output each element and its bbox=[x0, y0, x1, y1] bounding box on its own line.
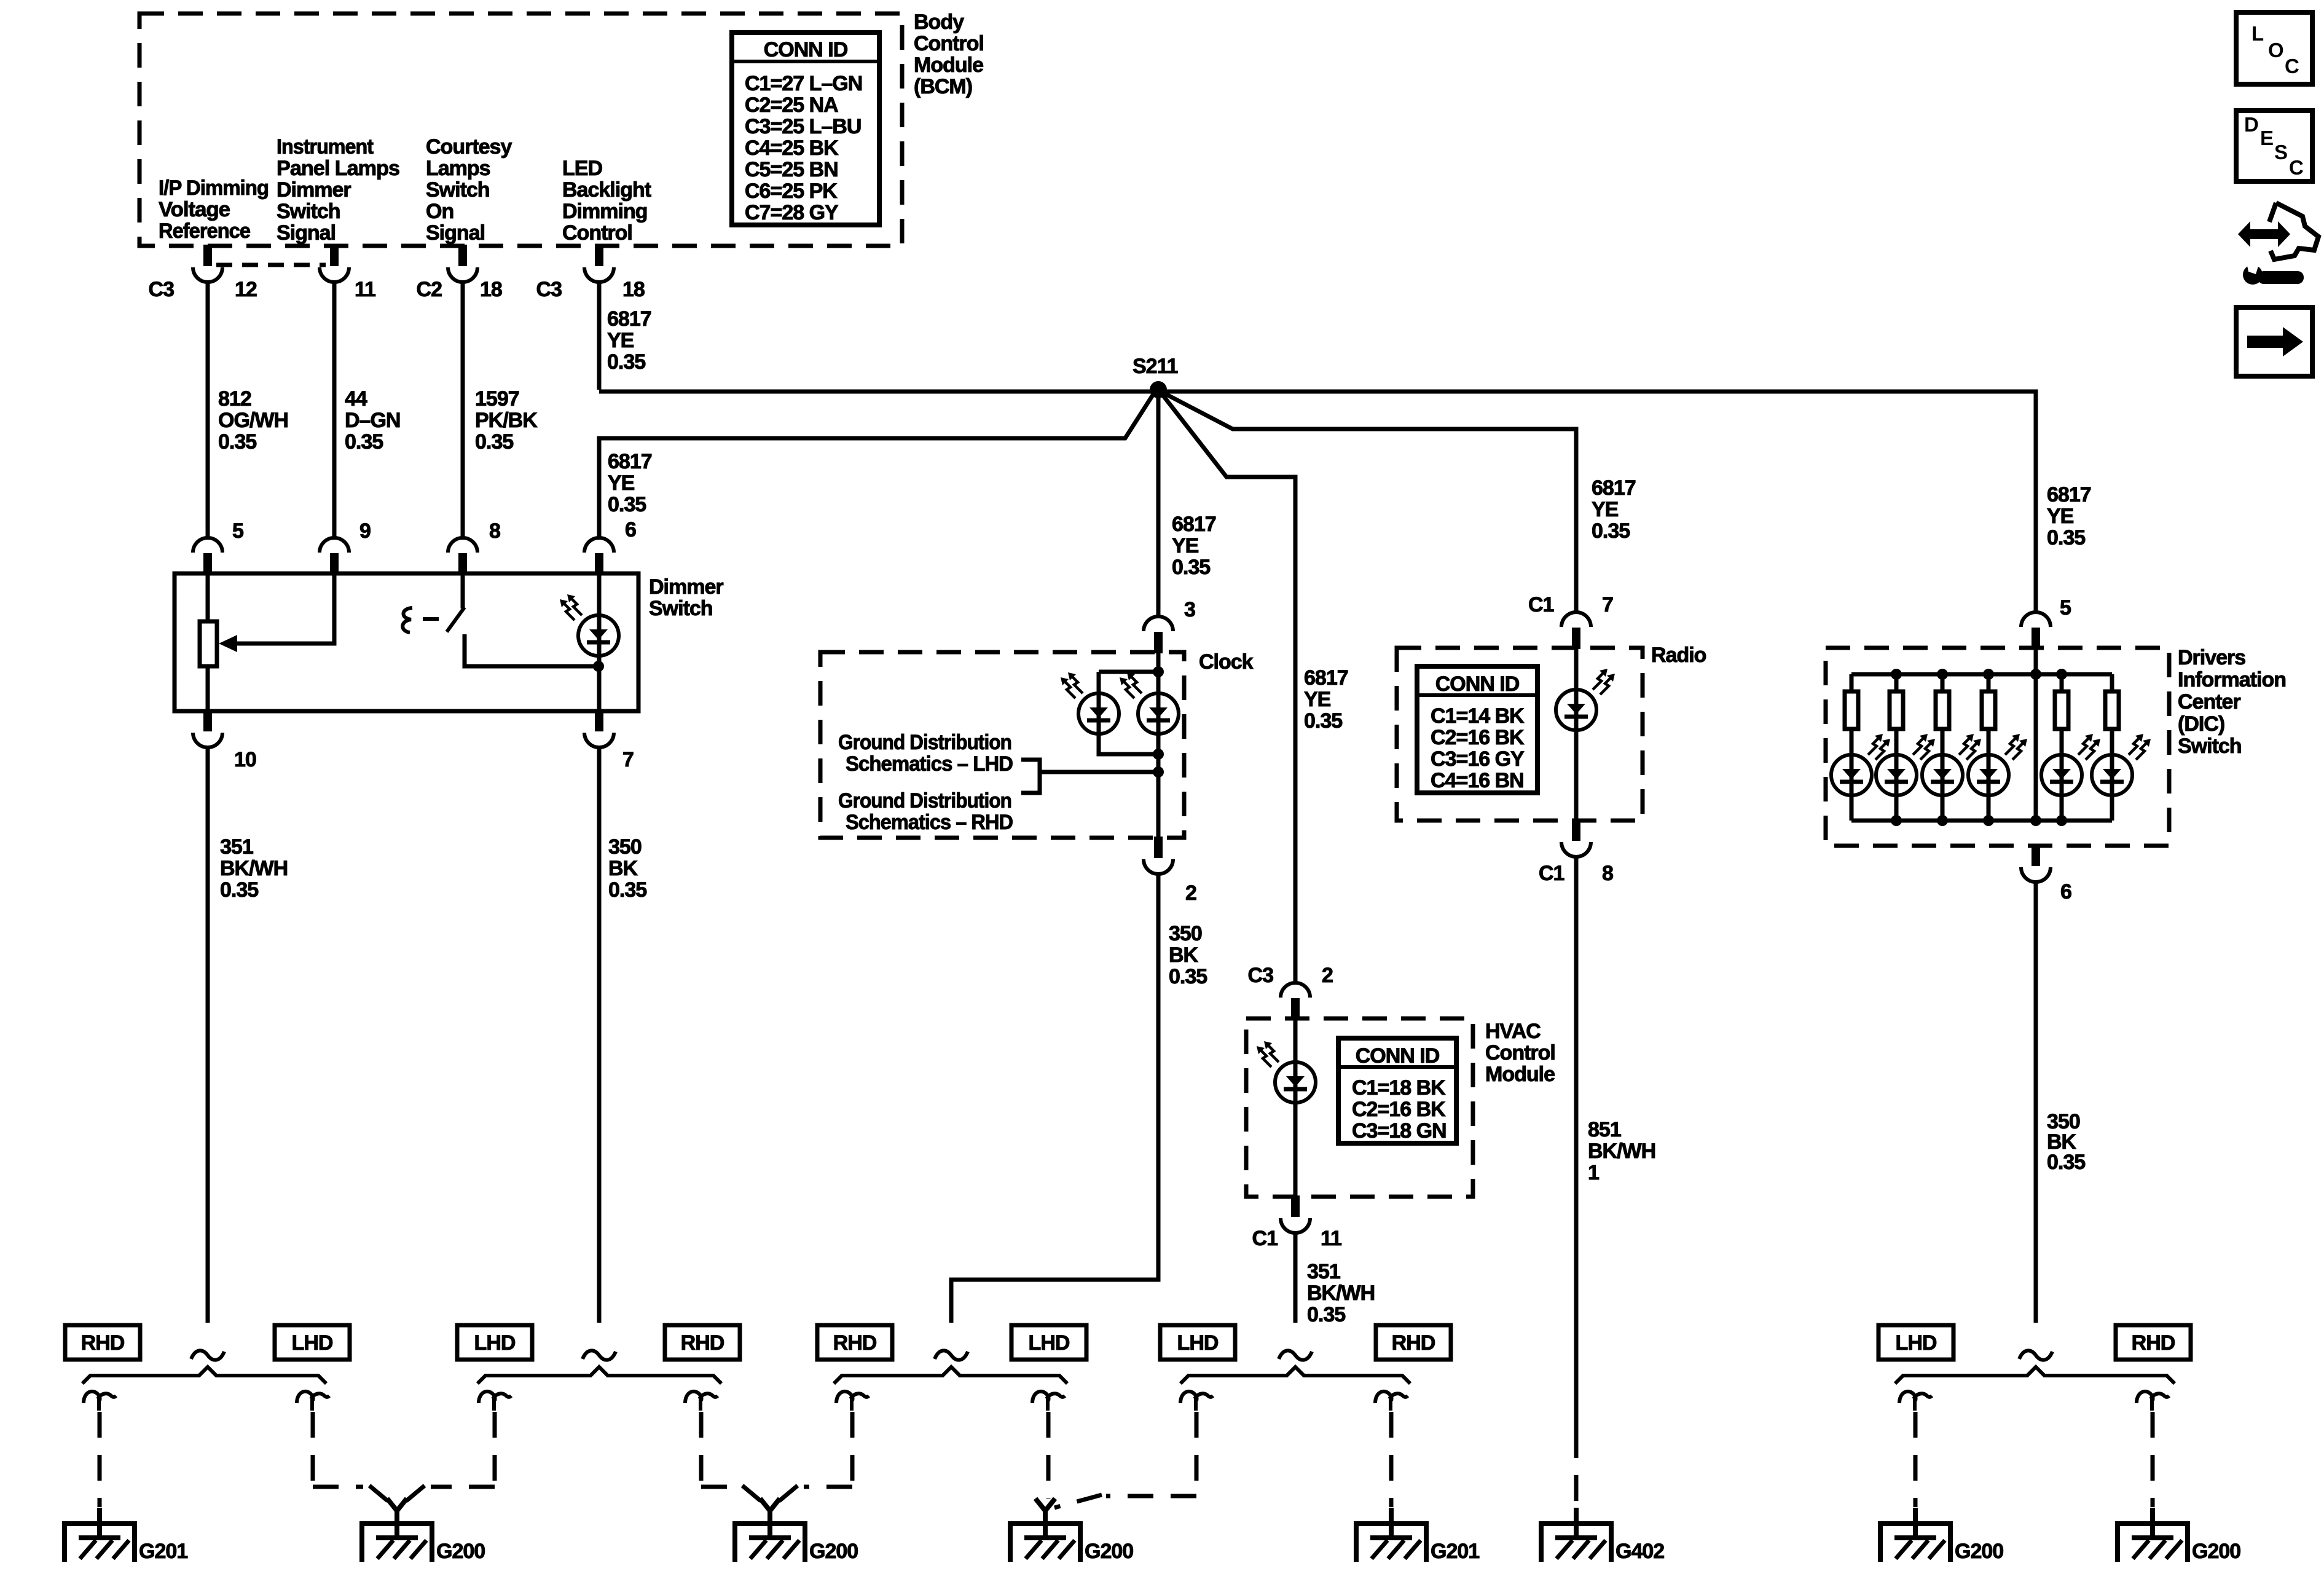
ground label G200 bbox=[436, 1540, 485, 1563]
svg-text:6817: 6817 bbox=[1172, 513, 1216, 536]
svg-text:Dimmer: Dimmer bbox=[649, 575, 723, 599]
pin label 5 bbox=[2060, 596, 2071, 620]
svg-text:C4=25 BK: C4=25 BK bbox=[745, 136, 839, 160]
wire pin 6 through LED bbox=[597, 573, 602, 711]
DIC branch 4 wire bbox=[1987, 674, 1991, 821]
wire 351 BK/WH from dimmer pin 10 bbox=[206, 747, 210, 1323]
inline connector clip bbox=[1032, 1392, 1065, 1411]
wire label 350 BK 0.35 bbox=[1169, 922, 1207, 988]
svg-text:C2=16 BK: C2=16 BK bbox=[1431, 726, 1525, 749]
wire label 6817 YE 0.35 at DIC bbox=[2047, 483, 2091, 549]
ground Y split bbox=[1035, 1498, 1055, 1524]
svg-text:C1: C1 bbox=[1539, 862, 1564, 885]
resistor R3 (DIC) bbox=[1936, 691, 1949, 729]
svg-text:Signal: Signal bbox=[426, 221, 485, 245]
resistor R1 (DIC) bbox=[1845, 691, 1858, 729]
variant box LHD bbox=[1878, 1325, 1953, 1360]
svg-text:9: 9 bbox=[359, 519, 371, 543]
svg-text:0.35: 0.35 bbox=[475, 430, 513, 454]
ground G201 bbox=[1356, 1508, 1426, 1562]
DIC branch 5 wire bbox=[2060, 674, 2064, 821]
svg-text:RHD: RHD bbox=[81, 1331, 125, 1355]
svg-text:RHD: RHD bbox=[1392, 1331, 1435, 1355]
svg-text:On: On bbox=[426, 200, 453, 223]
wire 812 OG/WH from BCM pin 12 to dimmer pin 5 bbox=[206, 282, 210, 539]
pin label C1 bbox=[1539, 862, 1564, 885]
pin label 8 bbox=[1602, 862, 1613, 885]
dimmer connector pin 9 bbox=[320, 538, 349, 575]
pin label 12 bbox=[235, 278, 257, 301]
svg-text:C1: C1 bbox=[1528, 593, 1554, 616]
svg-text:11: 11 bbox=[355, 278, 375, 301]
svg-text:O: O bbox=[2268, 39, 2283, 61]
wire HVAC internal bbox=[1294, 1018, 1298, 1197]
variant box RHD bbox=[665, 1325, 740, 1360]
pin label 7 bbox=[622, 748, 634, 771]
svg-text:G201: G201 bbox=[139, 1540, 187, 1563]
svg-text:Body: Body bbox=[914, 10, 964, 34]
svg-text:Control: Control bbox=[562, 221, 632, 245]
wire break tilde symbol bbox=[191, 1350, 224, 1360]
svg-text:0.35: 0.35 bbox=[1304, 709, 1342, 733]
wire label 6817 YE 0.35 bbox=[1592, 476, 1636, 543]
svg-text:OG/WH: OG/WH bbox=[218, 409, 288, 432]
wire pot wiper from pin 9 bbox=[236, 573, 334, 644]
dashed wire RHD to G201 bbox=[98, 1412, 102, 1507]
junction dot DIC top bus bbox=[1983, 669, 1994, 680]
svg-text:C1=18 BK: C1=18 BK bbox=[1352, 1076, 1446, 1100]
junction dot DIC top bus bbox=[1937, 669, 1948, 680]
variant box RHD bbox=[817, 1325, 892, 1360]
svg-text:Switch: Switch bbox=[649, 597, 713, 620]
pin label C3 bbox=[149, 278, 175, 301]
switch S1 blade bbox=[447, 607, 465, 632]
svg-text:7: 7 bbox=[1602, 593, 1613, 616]
icon DESC box bbox=[2236, 111, 2312, 181]
svg-text:RHD: RHD bbox=[2132, 1331, 2175, 1355]
icon forward arrow box bbox=[2236, 307, 2312, 376]
svg-text:C2=16 BK: C2=16 BK bbox=[1352, 1098, 1446, 1121]
dimmer connector pin 10 bbox=[193, 710, 222, 747]
BCM label Body Control Module (BCM) bbox=[914, 10, 984, 98]
wire label 6817 YE 0.35 bbox=[608, 450, 652, 516]
svg-text:C3: C3 bbox=[149, 278, 175, 301]
component label HVAC Control Module bbox=[1485, 1020, 1555, 1086]
svg-text:HVAC: HVAC bbox=[1485, 1020, 1541, 1043]
svg-text:C3: C3 bbox=[536, 278, 562, 301]
body control module (BCM) dashed box bbox=[139, 14, 902, 246]
ground label G201 bbox=[1431, 1540, 1479, 1563]
dimmer connector pin 8 bbox=[448, 538, 477, 575]
svg-text:Signal: Signal bbox=[277, 221, 336, 245]
svg-text:8: 8 bbox=[489, 519, 500, 543]
svg-text:0.35: 0.35 bbox=[218, 430, 256, 454]
pin label 18 bbox=[480, 278, 502, 301]
svg-text:Panel Lamps: Panel Lamps bbox=[277, 157, 399, 180]
svg-text:10: 10 bbox=[234, 748, 256, 771]
svg-text:L: L bbox=[2251, 22, 2264, 45]
dimmer connector pin 5 bbox=[193, 538, 222, 575]
svg-text:LHD: LHD bbox=[474, 1331, 516, 1355]
LED D3 (clock right) bbox=[1138, 693, 1179, 734]
clock dashed box bbox=[820, 652, 1184, 838]
svg-text:BK: BK bbox=[608, 857, 638, 880]
wire 44 D-GN from BCM pin 11 to dimmer pin 9 bbox=[332, 282, 337, 539]
svg-text:LHD: LHD bbox=[292, 1331, 333, 1355]
pin label 6 bbox=[2060, 880, 2071, 904]
LED D2 (clock left) bbox=[1078, 693, 1119, 734]
LED D11 rays bbox=[2129, 734, 2151, 760]
svg-text:6: 6 bbox=[625, 518, 636, 541]
svg-text:C3=25 L–BU: C3=25 L–BU bbox=[745, 115, 861, 138]
ground G200 bbox=[362, 1508, 432, 1562]
svg-text:0.35: 0.35 bbox=[1169, 965, 1207, 988]
wire label 351 BK/WH 0.35 bbox=[1307, 1260, 1375, 1326]
svg-text:Information: Information bbox=[2178, 668, 2286, 691]
svg-text:350: 350 bbox=[1169, 922, 1202, 945]
wire label 1597 PK/BK 0.35 bbox=[475, 387, 538, 454]
wire label 350 BK 0.35 bbox=[2047, 1110, 2085, 1174]
ground label G200 bbox=[1085, 1540, 1133, 1563]
BCM connector pin C3-18 bbox=[584, 245, 614, 282]
ground Y split bbox=[760, 1498, 780, 1524]
svg-text:YE: YE bbox=[1304, 688, 1331, 711]
pin label 10 bbox=[234, 748, 256, 771]
LED D6 (DIC) bbox=[1831, 755, 1872, 795]
potentiometer R (dimmer rheostat) bbox=[200, 621, 217, 666]
inline connector clip bbox=[1180, 1392, 1213, 1411]
svg-text:0.35: 0.35 bbox=[608, 493, 646, 516]
BCM pin function label LED Backlight Dimming Control bbox=[562, 157, 651, 245]
resistor R4 (DIC) bbox=[1982, 691, 1995, 729]
svg-text:C3: C3 bbox=[1248, 964, 1274, 987]
connector C3 dashed link between pins 12 and 11 bbox=[216, 263, 326, 267]
svg-text:Switch: Switch bbox=[277, 200, 340, 223]
svg-text:C: C bbox=[2285, 55, 2299, 77]
HVAC control module dashed box bbox=[1246, 1018, 1473, 1197]
dashed wire LHD to G200 right feed bbox=[406, 1412, 495, 1501]
inline connector clip bbox=[1899, 1392, 1932, 1411]
pin label C1 bbox=[1528, 593, 1554, 616]
radio connector pin C1-8 bbox=[1561, 819, 1591, 857]
svg-text:Radio: Radio bbox=[1651, 644, 1706, 667]
svg-text:Control: Control bbox=[1485, 1041, 1555, 1065]
ground label G200 bbox=[2192, 1540, 2240, 1563]
svg-text:G200: G200 bbox=[1085, 1540, 1133, 1563]
ground G200 bbox=[735, 1508, 805, 1562]
harness brace bbox=[1895, 1367, 2175, 1384]
svg-text:RHD: RHD bbox=[833, 1331, 877, 1355]
svg-text:1: 1 bbox=[1588, 1161, 1599, 1184]
harness brace bbox=[477, 1367, 721, 1384]
icon LOC box bbox=[2236, 12, 2312, 84]
svg-text:C7=28 GY: C7=28 GY bbox=[745, 201, 839, 224]
ground label G200 bbox=[1955, 1540, 2003, 1563]
wire 351 BK/WH from HVAC pin 11 bbox=[1294, 1233, 1298, 1323]
svg-text:Drivers: Drivers bbox=[2178, 646, 2245, 669]
svg-text:C2: C2 bbox=[417, 278, 442, 301]
svg-text:C5=25 BN: C5=25 BN bbox=[745, 158, 838, 181]
variant box RHD bbox=[1376, 1325, 1451, 1360]
svg-text:Clock: Clock bbox=[1199, 650, 1254, 674]
svg-text:RHD: RHD bbox=[681, 1331, 724, 1355]
ground G402 bbox=[1541, 1508, 1611, 1562]
ground G200 bbox=[1010, 1508, 1080, 1562]
svg-text:C4=16 BN: C4=16 BN bbox=[1431, 769, 1524, 792]
svg-text:S: S bbox=[2274, 141, 2287, 163]
harness brace bbox=[1180, 1367, 1410, 1384]
DIC bottom bus wire bbox=[1851, 819, 2112, 823]
DIC branch 6 wire bbox=[2110, 674, 2114, 821]
inline connector clip bbox=[479, 1392, 511, 1411]
ground G200 bbox=[1880, 1508, 1950, 1562]
drivers information center dashed box bbox=[1826, 648, 2169, 846]
svg-text:CONN ID: CONN ID bbox=[1356, 1044, 1440, 1068]
svg-text:C1=14 BK: C1=14 BK bbox=[1431, 704, 1525, 728]
svg-text:Dimming: Dimming bbox=[562, 200, 647, 223]
DIC connector pin 5 bbox=[2021, 612, 2051, 649]
wire 350 BK from dimmer pin 7 bbox=[597, 747, 602, 1323]
svg-text:Lamps: Lamps bbox=[426, 157, 490, 180]
svg-text:Reference: Reference bbox=[159, 219, 250, 243]
resistor R2 (DIC) bbox=[1890, 691, 1903, 729]
wire label 44 D-GN 0.35 bbox=[345, 387, 400, 454]
svg-text:LHD: LHD bbox=[1896, 1331, 1937, 1355]
pin label 8 bbox=[489, 519, 500, 543]
svg-text:351: 351 bbox=[220, 835, 253, 859]
ground G200 bbox=[2118, 1508, 2188, 1562]
pin label 2 bbox=[1322, 964, 1333, 987]
svg-text:YE: YE bbox=[1172, 534, 1199, 557]
svg-text:Courtesy: Courtesy bbox=[426, 135, 512, 159]
variant box RHD bbox=[65, 1325, 140, 1360]
junction dot clock top bbox=[1153, 666, 1164, 677]
DIC branch 1 wire bbox=[1850, 674, 1854, 821]
dashed wire RHD to G200 right feed bbox=[779, 1412, 852, 1501]
wire radio internal bbox=[1574, 648, 1579, 821]
svg-text:44: 44 bbox=[345, 387, 367, 411]
LED D8 (DIC) bbox=[1922, 755, 1963, 795]
svg-text:350: 350 bbox=[608, 835, 642, 859]
icon wrench and double arrow bbox=[2238, 203, 2318, 285]
component label Dimmer Switch bbox=[649, 575, 723, 620]
ground label G200 bbox=[809, 1540, 858, 1563]
potentiometer wiper arrowhead bbox=[219, 635, 237, 652]
switch actuator symbol bbox=[402, 608, 412, 632]
clock connector pin 2 bbox=[1144, 837, 1173, 874]
pin label 5 bbox=[232, 519, 243, 543]
inline connector clip bbox=[297, 1392, 329, 1411]
variant box LHD bbox=[1011, 1325, 1086, 1360]
svg-text:YE: YE bbox=[608, 471, 635, 495]
svg-text:5: 5 bbox=[2060, 596, 2071, 620]
svg-text:PK/BK: PK/BK bbox=[475, 409, 538, 432]
BCM connector pin 11 bbox=[320, 245, 349, 282]
svg-text:Ground Distribution: Ground Distribution bbox=[838, 789, 1011, 813]
svg-text:0.35: 0.35 bbox=[2047, 526, 2085, 549]
BCM connector pin C3-12 bbox=[193, 245, 222, 282]
LED D10 (DIC) bbox=[2041, 755, 2082, 795]
pin label 11 bbox=[355, 278, 375, 301]
DIC connector pin 6 bbox=[2021, 845, 2051, 882]
svg-text:Dimmer: Dimmer bbox=[277, 178, 351, 202]
pin label 2 bbox=[1185, 881, 1196, 905]
svg-text:0.35: 0.35 bbox=[345, 430, 383, 454]
svg-text:Module: Module bbox=[914, 53, 983, 77]
junction dot DIC top bus bbox=[2030, 669, 2041, 680]
svg-text:S211: S211 bbox=[1133, 355, 1178, 378]
pin label C2 bbox=[417, 278, 442, 301]
svg-text:Switch: Switch bbox=[2178, 734, 2242, 758]
label Ground Distribution Schematics - LHD bbox=[838, 731, 1013, 776]
dashed wire RHD to G201 bbox=[1389, 1412, 1394, 1507]
junction dot DIC bottom bus bbox=[1937, 815, 1948, 826]
svg-text:G200: G200 bbox=[2192, 1540, 2240, 1563]
svg-text:YE: YE bbox=[2047, 505, 2074, 528]
svg-text:YE: YE bbox=[1592, 498, 1619, 521]
dashed wire RHD to G200 bbox=[701, 1412, 761, 1501]
LED D3 rays bbox=[1120, 672, 1142, 698]
svg-text:C6=25 PK: C6=25 PK bbox=[745, 179, 838, 203]
svg-text:LHD: LHD bbox=[1029, 1331, 1070, 1355]
dashed wire RHD to G200 bbox=[2151, 1412, 2155, 1507]
wire branch from S211 to dimmer pin 6 bbox=[599, 392, 1155, 539]
resistor R6 (DIC) bbox=[2105, 691, 2119, 729]
radio connector pin C1-7 bbox=[1561, 612, 1591, 649]
svg-text:Backlight: Backlight bbox=[562, 178, 651, 202]
ground label G402 bbox=[1615, 1540, 1664, 1563]
LED D9 (DIC) bbox=[1968, 755, 2009, 795]
svg-text:5: 5 bbox=[232, 519, 243, 543]
BCM connector pin C2-18 bbox=[448, 245, 477, 282]
svg-text:G402: G402 bbox=[1615, 1540, 1664, 1563]
svg-text:Schematics – RHD: Schematics – RHD bbox=[846, 811, 1013, 834]
svg-text:C1=27 L–GN: C1=27 L–GN bbox=[745, 72, 862, 95]
svg-text:6817: 6817 bbox=[608, 450, 652, 473]
dimmer switch box bbox=[175, 573, 638, 711]
svg-text:LHD: LHD bbox=[1177, 1331, 1219, 1355]
svg-text:18: 18 bbox=[480, 278, 502, 301]
pin label C3 bbox=[536, 278, 562, 301]
wire 6817 YE from BCM pin 18 down bbox=[597, 282, 602, 390]
inline connector clip bbox=[836, 1392, 869, 1411]
svg-text:0.35: 0.35 bbox=[2047, 1151, 2085, 1174]
variant box LHD bbox=[275, 1325, 350, 1360]
pin label C1 bbox=[1252, 1227, 1278, 1250]
BCM pin function label Instrument Panel Lamps Dimmer Switch Signal bbox=[277, 135, 399, 245]
wire break tilde symbol bbox=[935, 1350, 968, 1360]
svg-text:2: 2 bbox=[1322, 964, 1333, 987]
LED D4 (radio illumination) bbox=[1556, 690, 1596, 730]
pin label 3 bbox=[1184, 598, 1195, 621]
svg-text:6817: 6817 bbox=[2047, 483, 2091, 506]
junction dot DIC top bus bbox=[1891, 669, 1902, 680]
wire 350 BK from DIC pin 6 bbox=[2034, 882, 2038, 1323]
svg-text:BK/WH: BK/WH bbox=[220, 857, 288, 880]
pin label 11 bbox=[1321, 1227, 1341, 1250]
BCM pin function label I/P Dimming Voltage Reference bbox=[159, 176, 269, 243]
inline connector clip bbox=[685, 1392, 718, 1411]
svg-text:0.35: 0.35 bbox=[220, 878, 258, 902]
LED D4 rays bbox=[1593, 669, 1615, 695]
wire 6817 YE main bus bbox=[599, 392, 2036, 614]
svg-text:LED: LED bbox=[562, 157, 602, 180]
wire label 350 BK 0.35 bbox=[608, 835, 646, 902]
svg-text:Control: Control bbox=[914, 32, 984, 55]
svg-text:Schematics – LHD: Schematics – LHD bbox=[846, 752, 1013, 776]
HVAC CONN ID table bbox=[1338, 1038, 1456, 1143]
svg-text:851: 851 bbox=[1588, 1118, 1621, 1141]
dashed wire LHD to G200 bbox=[313, 1412, 388, 1501]
svg-text:6817: 6817 bbox=[1592, 476, 1636, 500]
LED D7 rays bbox=[1913, 734, 1935, 760]
svg-text:6817: 6817 bbox=[1304, 666, 1348, 690]
svg-text:G200: G200 bbox=[1955, 1540, 2003, 1563]
switch fixed contact bbox=[465, 634, 599, 666]
svg-text:0.35: 0.35 bbox=[607, 350, 645, 374]
LED D5 (HVAC illumination) bbox=[1275, 1062, 1316, 1103]
svg-text:G200: G200 bbox=[809, 1540, 858, 1563]
HVAC connector pin C3-2 bbox=[1281, 983, 1310, 1020]
svg-text:11: 11 bbox=[1321, 1227, 1341, 1250]
svg-text:BK/WH: BK/WH bbox=[1588, 1140, 1655, 1163]
wire branch from S211 to radio pin 7 bbox=[1162, 392, 1576, 613]
svg-text:E: E bbox=[2260, 127, 2273, 149]
component label Radio bbox=[1651, 644, 1706, 667]
harness brace bbox=[82, 1367, 326, 1384]
switch linkage dash bbox=[423, 617, 439, 621]
svg-text:I/P Dimming: I/P Dimming bbox=[159, 176, 269, 200]
ground Y split bbox=[387, 1498, 407, 1524]
clock connector pin 3 bbox=[1144, 616, 1173, 653]
wire 350 BK from clock pin 2 bbox=[951, 874, 1158, 1323]
svg-text:C3=16 GY: C3=16 GY bbox=[1431, 747, 1525, 771]
dimmer connector pin 7 bbox=[584, 710, 614, 747]
svg-text:812: 812 bbox=[218, 387, 251, 411]
pin label 6 bbox=[625, 518, 636, 541]
LED D2 rays bbox=[1061, 672, 1083, 698]
svg-text:Instrument: Instrument bbox=[277, 135, 374, 159]
label Ground Distribution Schematics - RHD bbox=[838, 789, 1013, 834]
svg-text:6: 6 bbox=[2060, 880, 2071, 904]
svg-text:0.35: 0.35 bbox=[1307, 1303, 1345, 1326]
junction dot DIC bottom bus bbox=[1891, 815, 1902, 826]
pin label 9 bbox=[359, 519, 371, 543]
junction dot ground ref bbox=[1153, 766, 1164, 778]
pin label C3 bbox=[1248, 964, 1274, 987]
wire DIC internal main bbox=[2034, 648, 2038, 821]
dashed wire LHD to G200 bent feed bbox=[1054, 1412, 1196, 1508]
LED D7 (DIC) bbox=[1876, 755, 1917, 795]
LED D10 rays bbox=[2078, 734, 2100, 760]
wire label 6817 YE 0.35 bbox=[607, 307, 651, 374]
ground distribution reference bracket bbox=[1021, 760, 1158, 793]
wire break tilde symbol bbox=[2019, 1350, 2052, 1360]
svg-text:(BCM): (BCM) bbox=[914, 75, 972, 98]
svg-text:G201: G201 bbox=[1431, 1540, 1479, 1563]
inline connector clip bbox=[84, 1392, 116, 1411]
wire label 6817 YE 0.35 bbox=[1304, 666, 1348, 733]
node label S211 bbox=[1133, 355, 1178, 378]
svg-text:G200: G200 bbox=[436, 1540, 485, 1563]
svg-text:(DIC): (DIC) bbox=[2178, 712, 2224, 736]
clock LED parallel branch wire bbox=[1099, 672, 1158, 754]
BCM CONN ID table bbox=[732, 33, 879, 225]
wire 851 BK/WH from radio pin 8 bbox=[1574, 857, 1579, 1432]
wire break tilde symbol bbox=[1279, 1350, 1312, 1360]
svg-text:0.35: 0.35 bbox=[1172, 556, 1210, 579]
wire label 812 OG/WH 0.35 bbox=[218, 387, 288, 454]
